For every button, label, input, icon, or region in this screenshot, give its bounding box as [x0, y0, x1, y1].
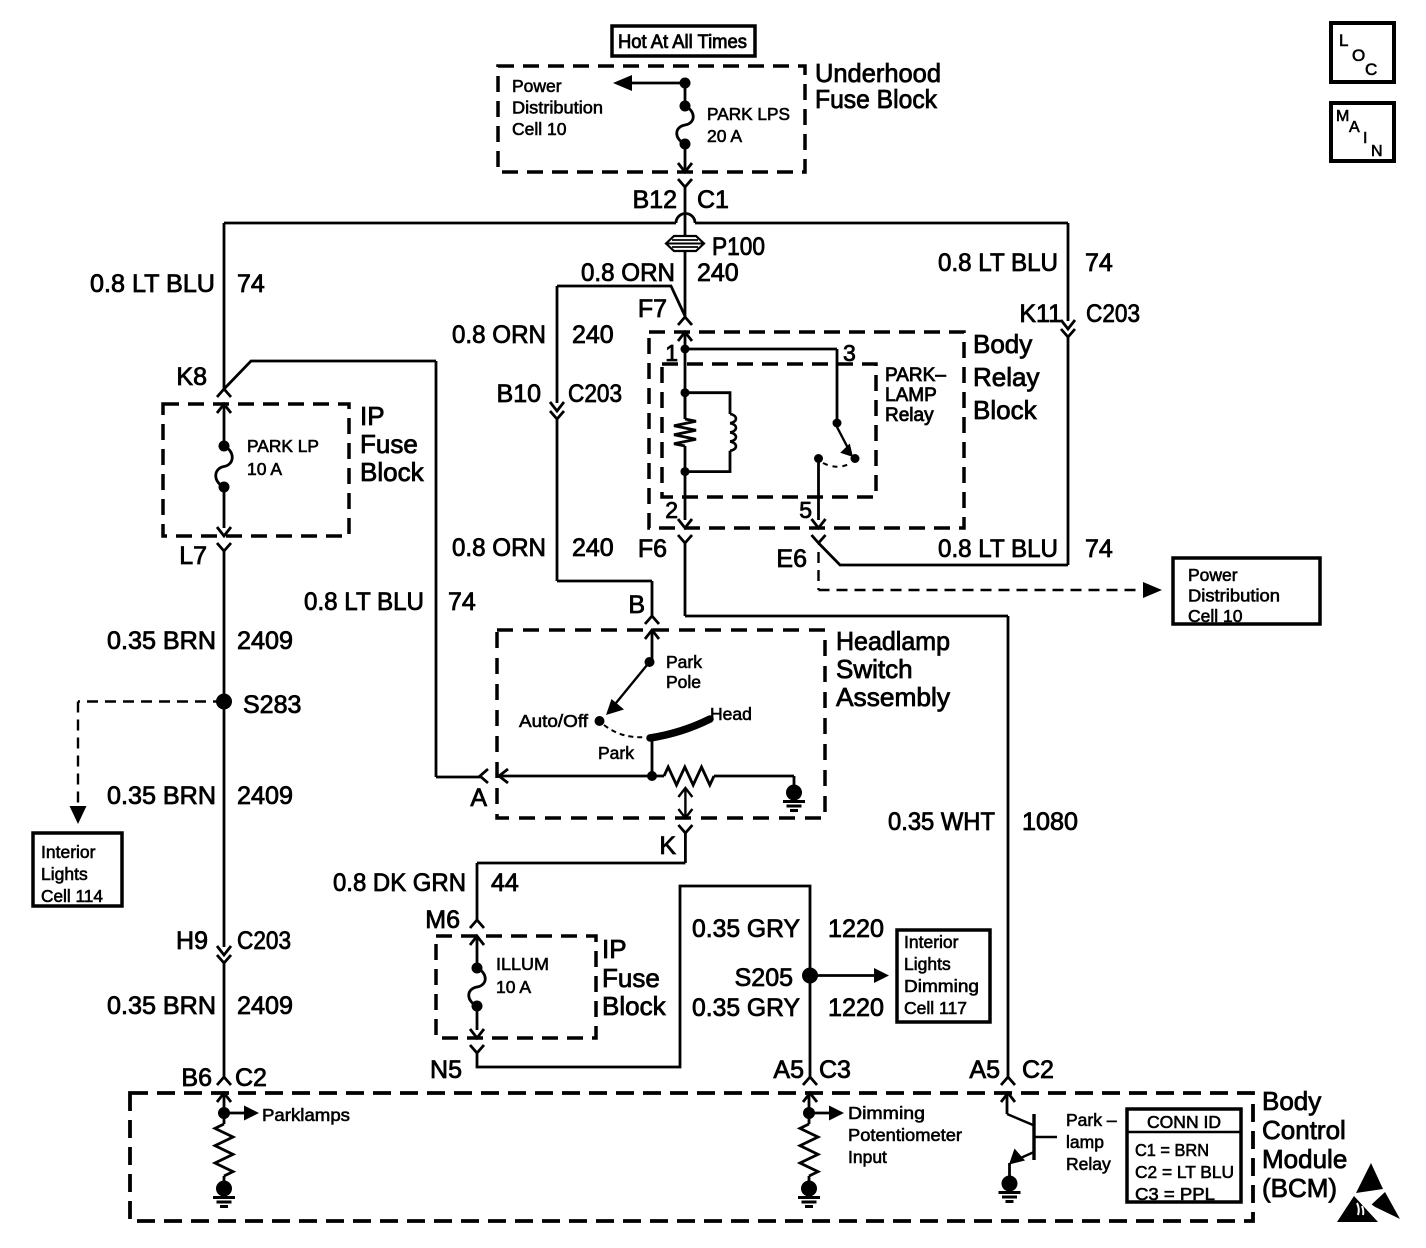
svg-text:Module: Module — [1262, 1144, 1347, 1174]
svg-text:74: 74 — [1085, 535, 1113, 563]
svg-text:M6: M6 — [425, 906, 460, 934]
svg-text:Distribution: Distribution — [512, 98, 603, 118]
svg-text:S283: S283 — [243, 691, 301, 719]
svg-text:Relay: Relay — [973, 362, 1039, 392]
svg-text:74: 74 — [448, 588, 476, 616]
svg-text:Park: Park — [598, 743, 634, 763]
svg-text:Power: Power — [1188, 565, 1238, 585]
svg-text:Auto/Off: Auto/Off — [519, 711, 588, 731]
svg-text:2409: 2409 — [237, 627, 293, 655]
svg-text:0.8 ORN: 0.8 ORN — [581, 259, 675, 287]
svg-text:ILLUM: ILLUM — [496, 954, 549, 974]
svg-text:Switch: Switch — [836, 654, 913, 684]
svg-text:K8: K8 — [176, 363, 207, 391]
svg-text:P100: P100 — [712, 233, 765, 261]
svg-text:1220: 1220 — [828, 994, 884, 1022]
svg-text:0.35 WHT: 0.35 WHT — [888, 808, 995, 836]
svg-text:Control: Control — [1262, 1115, 1346, 1145]
svg-text:0.35 GRY: 0.35 GRY — [692, 915, 800, 943]
svg-text:A: A — [470, 784, 487, 812]
svg-text:0.8 DK GRN: 0.8 DK GRN — [333, 869, 466, 897]
svg-text:Potentiometer: Potentiometer — [848, 1125, 962, 1145]
svg-text:1080: 1080 — [1022, 808, 1078, 836]
svg-text:1: 1 — [665, 340, 678, 366]
svg-text:Interior: Interior — [41, 842, 96, 862]
svg-text:74: 74 — [237, 270, 265, 298]
svg-text:Input: Input — [848, 1147, 887, 1167]
svg-text:0.35 BRN: 0.35 BRN — [107, 992, 216, 1020]
svg-text:I: I — [1363, 130, 1367, 147]
svg-text:Interior: Interior — [904, 932, 959, 952]
svg-text:A5: A5 — [773, 1056, 804, 1084]
svg-text:Cell 10: Cell 10 — [512, 119, 567, 139]
svg-text:C: C — [1365, 60, 1377, 79]
svg-text:Pole: Pole — [666, 672, 701, 692]
svg-text:Block: Block — [602, 991, 667, 1021]
svg-text:Lights: Lights — [904, 954, 951, 974]
svg-text:C2: C2 — [1022, 1056, 1054, 1084]
svg-text:F6: F6 — [638, 535, 667, 563]
svg-text:B6: B6 — [181, 1064, 212, 1092]
svg-text:74: 74 — [1085, 249, 1113, 277]
svg-text:C2: C2 — [235, 1064, 267, 1092]
svg-text:10 A: 10 A — [247, 459, 282, 479]
svg-text:L: L — [1339, 31, 1348, 50]
svg-text:20 A: 20 A — [707, 126, 742, 146]
svg-text:2409: 2409 — [237, 992, 293, 1020]
svg-text:5: 5 — [799, 497, 812, 523]
svg-text:A5: A5 — [969, 1056, 1000, 1084]
svg-text:Lights: Lights — [41, 864, 88, 884]
svg-text:PARK LPS: PARK LPS — [707, 104, 790, 124]
svg-text:Cell 10: Cell 10 — [1188, 606, 1243, 626]
svg-text:C2 = LT BLU: C2 = LT BLU — [1135, 1162, 1234, 1182]
svg-text:0.8 LT BLU: 0.8 LT BLU — [90, 270, 215, 298]
svg-text:2409: 2409 — [237, 782, 293, 810]
svg-text:C203: C203 — [237, 927, 291, 955]
svg-text:(BCM): (BCM) — [1262, 1173, 1337, 1203]
svg-text:3: 3 — [843, 340, 856, 366]
svg-text:L7: L7 — [179, 542, 207, 570]
svg-text:Relay: Relay — [885, 405, 934, 426]
svg-text:Dimming: Dimming — [904, 976, 979, 996]
svg-text:LAMP: LAMP — [885, 385, 937, 406]
svg-text:H9: H9 — [176, 927, 208, 955]
svg-text:240: 240 — [697, 259, 739, 287]
svg-text:CONN ID: CONN ID — [1147, 1112, 1221, 1132]
svg-text:0.8 LT BLU: 0.8 LT BLU — [938, 535, 1058, 563]
svg-text:Cell 117: Cell 117 — [904, 998, 967, 1018]
svg-text:2: 2 — [665, 497, 678, 523]
svg-text:C3: C3 — [819, 1056, 851, 1084]
svg-text:E6: E6 — [776, 545, 807, 573]
svg-text:0.8 ORN: 0.8 ORN — [452, 321, 546, 349]
svg-text:Head: Head — [710, 704, 752, 724]
svg-text:240: 240 — [572, 534, 614, 562]
svg-text:10 A: 10 A — [496, 977, 531, 997]
svg-text:Distribution: Distribution — [1188, 586, 1280, 606]
svg-text:1220: 1220 — [828, 915, 884, 943]
svg-text:Block: Block — [973, 395, 1038, 425]
svg-text:Power: Power — [512, 76, 562, 96]
svg-text:44: 44 — [491, 869, 519, 897]
svg-text:C1: C1 — [697, 186, 729, 214]
svg-text:M: M — [1336, 108, 1349, 125]
svg-text:B10: B10 — [497, 380, 541, 408]
svg-text:Fuse: Fuse — [602, 963, 660, 993]
svg-text:A: A — [1349, 119, 1360, 136]
svg-text:Block: Block — [360, 457, 425, 487]
svg-text:K: K — [659, 832, 676, 860]
svg-text:K11: K11 — [1019, 300, 1062, 328]
svg-text:B12: B12 — [633, 186, 677, 214]
svg-text:Park: Park — [666, 652, 702, 672]
svg-text:PARK–: PARK– — [885, 365, 946, 386]
svg-text:Headlamp: Headlamp — [836, 626, 950, 656]
svg-text:C1 = BRN: C1 = BRN — [1135, 1140, 1209, 1160]
svg-text:N: N — [1371, 143, 1383, 160]
svg-text:Cell 114: Cell 114 — [41, 886, 103, 906]
svg-text:S205: S205 — [735, 964, 793, 992]
svg-text:Hot At All Times: Hot At All Times — [618, 31, 747, 53]
svg-text:C203: C203 — [1086, 300, 1140, 328]
svg-text:0.35 BRN: 0.35 BRN — [107, 782, 216, 810]
svg-text:0.8 ORN: 0.8 ORN — [452, 534, 546, 562]
svg-text:Parklamps: Parklamps — [262, 1105, 350, 1125]
svg-text:0.35 GRY: 0.35 GRY — [692, 994, 800, 1022]
svg-text:Dimming: Dimming — [848, 1103, 925, 1123]
svg-text:Assembly: Assembly — [836, 682, 950, 712]
svg-text:Relay: Relay — [1066, 1154, 1111, 1174]
svg-text:0.8 LT BLU: 0.8 LT BLU — [938, 249, 1058, 277]
svg-text:Park –: Park – — [1066, 1110, 1117, 1130]
svg-text:Body: Body — [1262, 1086, 1321, 1116]
svg-text:B: B — [628, 591, 645, 619]
svg-text:IP: IP — [360, 401, 385, 431]
svg-text:Fuse: Fuse — [360, 429, 418, 459]
svg-text:0.8 LT BLU: 0.8 LT BLU — [304, 588, 424, 616]
svg-text:F7: F7 — [638, 295, 667, 323]
svg-text:IP: IP — [602, 934, 627, 964]
svg-text:Body: Body — [973, 329, 1032, 359]
svg-text:Fuse Block: Fuse Block — [815, 84, 938, 114]
svg-text:0.35 BRN: 0.35 BRN — [107, 627, 216, 655]
svg-text:lamp: lamp — [1066, 1132, 1104, 1152]
svg-text:240: 240 — [572, 321, 614, 349]
svg-text:O: O — [1352, 46, 1365, 65]
svg-text:C3 = PPL: C3 = PPL — [1135, 1184, 1215, 1204]
svg-text:N5: N5 — [430, 1056, 462, 1084]
svg-text:C203: C203 — [568, 380, 622, 408]
svg-text:PARK LP: PARK LP — [247, 436, 319, 456]
